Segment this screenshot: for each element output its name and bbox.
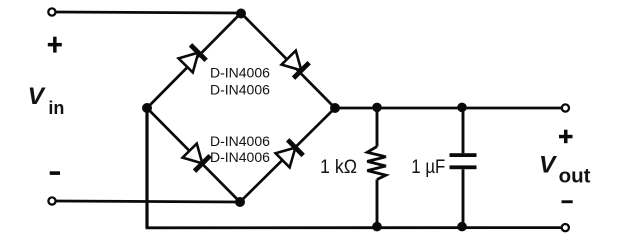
diode D1 D-IN4006 top-left <box>178 45 206 73</box>
svg-text:in: in <box>48 98 64 118</box>
terminal Vout- <box>562 224 569 231</box>
capacitor C1 1 uF <box>450 108 477 227</box>
node capacitor bottom <box>457 222 467 232</box>
wire Vin+ top <box>55 12 241 13</box>
terminal Vin+ <box>48 8 55 15</box>
node resistor bottom <box>372 222 382 232</box>
diode D2 D-IN4006 top-right <box>281 50 309 78</box>
node bottom <box>235 197 245 207</box>
label - (Vin) <box>50 171 60 175</box>
label + (Vout) <box>559 130 573 144</box>
wire Vin- bottom <box>55 201 240 202</box>
svg-text:D-IN4006: D-IN4006 <box>210 133 270 149</box>
wire bridge edge top-right <box>241 13 335 108</box>
terminal Vout+ <box>562 104 569 111</box>
wire bridge edge bottom-left <box>147 108 240 202</box>
svg-text:D-IN4006: D-IN4006 <box>210 149 270 165</box>
label Vout <box>539 152 591 188</box>
node resistor top <box>372 103 382 113</box>
wire bridge edge bottom-right <box>240 108 335 202</box>
svg-text:out: out <box>559 165 591 188</box>
wire left node to bottom rail <box>145 108 148 228</box>
svg-text:V: V <box>28 83 47 110</box>
wire top rail <box>335 107 562 110</box>
diode D4 D-IN4006 bottom-right <box>275 140 303 168</box>
node left <box>142 103 152 113</box>
svg-text:V: V <box>539 152 558 179</box>
label + (Vin) <box>48 37 62 53</box>
node right <box>330 103 340 113</box>
resistor R1 1 kOhm <box>367 108 386 227</box>
svg-text:1 kΩ: 1 kΩ <box>320 156 357 178</box>
wire bottom rail <box>146 226 562 229</box>
wire bridge edge top-left <box>147 13 241 108</box>
label - (Vout) <box>562 200 573 203</box>
svg-text:D-IN4006: D-IN4006 <box>210 81 270 97</box>
label Vin <box>28 83 65 118</box>
terminal Vin- <box>48 197 55 204</box>
svg-text:1 µF: 1 µF <box>411 156 445 178</box>
diode D3 D-IN4006 bottom-left <box>182 143 210 171</box>
svg-text:D-IN4006: D-IN4006 <box>210 64 270 80</box>
node capacitor top <box>457 103 467 113</box>
node top <box>236 9 246 19</box>
